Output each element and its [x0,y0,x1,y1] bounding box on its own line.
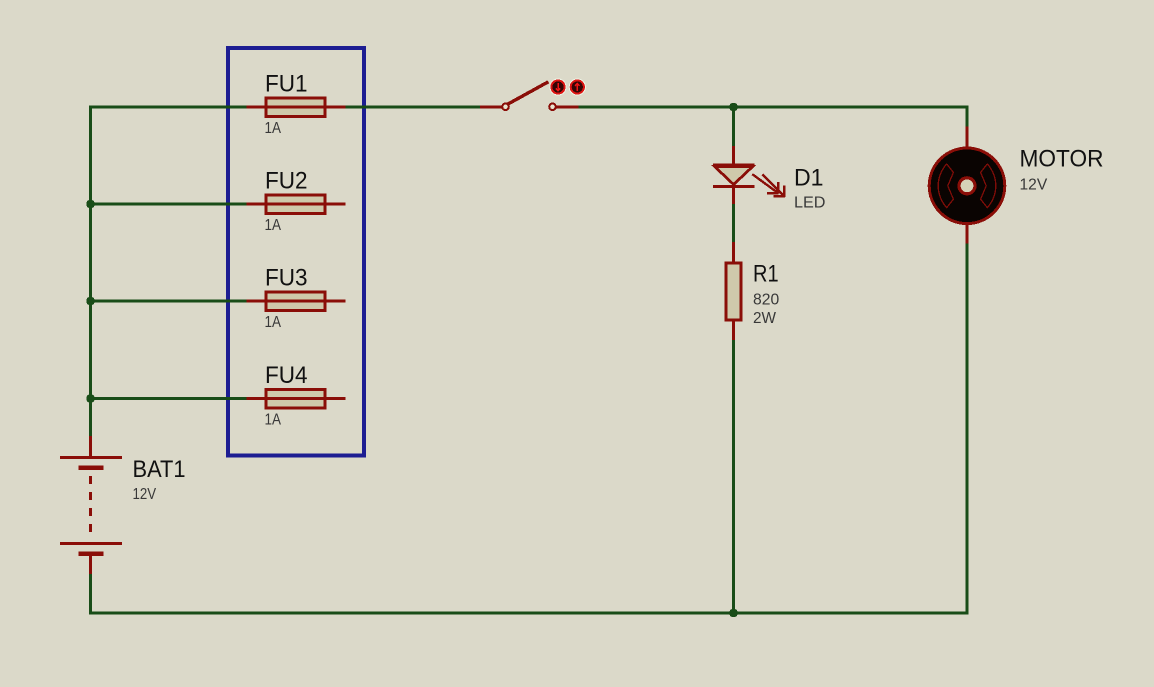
switch actuator button down [550,79,566,95]
long plate 2 [60,542,122,545]
wire bottom rail [89,612,967,615]
svg-text:FU3: FU3 [265,265,308,292]
dashed link [89,476,92,532]
wire top right (switch to motor) [579,106,968,109]
wire LED branch upper [732,107,735,146]
motor brush right [981,164,996,208]
short plate 2 [79,552,104,556]
switch actuator button up [570,79,586,95]
long plate 1 [60,456,122,459]
svg-text:12V: 12V [1020,177,1048,194]
LED arrow 2 [762,174,783,195]
svg-text:12V: 12V [133,486,157,503]
LED D1 [713,146,826,212]
wire motor top [966,106,969,127]
fuse FU4 [247,362,346,429]
motor M1 [929,127,1103,244]
wire FU4 row [91,397,247,400]
svg-text:MOTOR: MOTOR [1020,145,1104,172]
wire battery bottom [89,574,92,615]
svg-text:BAT1: BAT1 [133,456,186,483]
node junction FU2 [87,200,95,208]
switch SW lever and terminals [480,82,579,110]
svg-text:820: 820 [753,292,779,309]
svg-text:FU2: FU2 [265,168,308,195]
wire top-left horizontal [89,106,247,109]
LED arrow 1 [752,174,777,192]
svg-text:R1: R1 [753,261,779,288]
motor brush left [938,164,953,208]
motor hub [959,178,975,194]
battery BAT1 [60,436,186,574]
wire motor bottom [966,244,969,615]
blue selection box [228,48,364,456]
svg-text:FU4: FU4 [265,362,308,389]
svg-text:FU1: FU1 [265,71,308,98]
svg-text:LED: LED [794,195,826,212]
svg-text:1A: 1A [265,120,282,137]
resistor R1 [726,242,779,340]
short plate 1 [79,466,104,470]
wire top mid (fuse to switch) [345,106,480,109]
node junction bottom LED branch [730,609,738,617]
svg-text:1A: 1A [265,412,282,429]
node junction FU4 [87,395,95,403]
svg-text:1A: 1A [265,217,282,234]
fuse FU3 [247,265,346,332]
svg-text:D1: D1 [794,164,824,191]
svg-text:2W: 2W [753,310,777,327]
wire left vertical rail [89,106,92,437]
fuse FU1 [247,71,346,138]
node junction top LED branch [730,103,738,111]
node junction FU3 [87,297,95,305]
wire FU2 row [91,203,247,206]
wire FU3 row [91,300,247,303]
wire resistor to bottom [732,340,735,613]
wire LED to resistor [732,204,735,242]
fuse FU2 [247,168,346,235]
svg-text:1A: 1A [265,314,282,331]
